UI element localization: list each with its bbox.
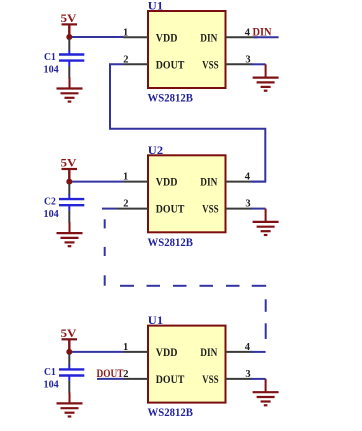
svg-text:DIN: DIN (200, 32, 218, 44)
svg-text:VSS: VSS (202, 59, 219, 71)
junction dot (5V/C1) (66, 34, 72, 40)
IC U2 WS2812B (middle) (148, 155, 226, 232)
svg-text:C2: C2 (44, 196, 56, 208)
ground (below C1) (57, 78, 83, 102)
svg-text:WS2812B: WS2812B (148, 407, 194, 419)
svg-text:DOUT: DOUT (156, 204, 185, 216)
svg-text:U1: U1 (148, 1, 164, 13)
wire U1 pin 3 to ground (251, 63, 266, 65)
svg-text:5V: 5V (61, 158, 78, 170)
pin 4 DIN (bottom) (226, 351, 253, 353)
junction dot (5V/C1 bottom) (66, 349, 72, 355)
dashed wire down to bottom DIN (right vertical) (265, 299, 267, 339)
svg-text:VDD: VDD (156, 32, 178, 44)
svg-text:VDD: VDD (156, 347, 178, 359)
svg-text:104: 104 (44, 64, 60, 76)
wire stub U2 pin 4 DIN (251, 181, 266, 183)
wire U1 pin 4 to DIN label (254, 36, 279, 38)
svg-text:4: 4 (245, 172, 251, 183)
pin 1 VDD (middle) (124, 181, 149, 183)
svg-text:WS2812B: WS2812B (148, 237, 194, 249)
dashed wire horizontal run (120, 285, 266, 287)
svg-text:2: 2 (123, 199, 128, 210)
svg-text:2: 2 (123, 54, 128, 65)
svg-text:WS2812B: WS2812B (148, 93, 194, 105)
svg-text:1: 1 (123, 342, 128, 353)
svg-text:C1: C1 (44, 366, 56, 378)
power port 5V (U1 section) (61, 13, 78, 37)
pin 2 DOUT (bottom) (124, 378, 148, 380)
wire 5V junction to U1 pin 1 (69, 36, 123, 38)
svg-text:DIN: DIN (200, 347, 218, 359)
wire bottom U1 pin 3 to ground (251, 378, 266, 380)
pin 2 DOUT (top) (124, 63, 149, 65)
svg-text:104: 104 (44, 208, 60, 220)
svg-text:2: 2 (123, 369, 128, 380)
capacitor C1 (top section) (59, 39, 84, 78)
pin 4 DIN (top) (226, 36, 258, 38)
ground (below C1 bottom) (57, 392, 83, 416)
ground (U2 VSS) (253, 209, 279, 235)
svg-text:DOUT: DOUT (97, 368, 124, 380)
ground (bottom U1 VSS) (253, 379, 279, 405)
pin 1 VDD (bottom) (124, 351, 149, 353)
wire stub DOUT label to pin 2 (97, 378, 124, 380)
pin 3 VSS (top) (226, 63, 253, 65)
svg-text:VSS: VSS (202, 204, 219, 216)
power port 5V (U2 section) (61, 158, 78, 182)
svg-text:4: 4 (245, 27, 251, 38)
svg-text:VSS: VSS (202, 374, 219, 386)
pin 3 VSS (bottom) (226, 378, 253, 380)
wire stub bottom U1 pin 4 DIN (251, 351, 266, 353)
svg-text:DIN: DIN (253, 26, 273, 38)
wire U2 pin 3 to ground (251, 208, 266, 210)
pin 1 VDD (top) (124, 36, 149, 38)
svg-text:U1: U1 (148, 315, 164, 327)
svg-text:5V: 5V (61, 328, 78, 340)
wire 5V junction to bottom U1 pin 1 (69, 351, 123, 353)
wire 5V junction to U2 pin 1 (69, 181, 123, 183)
wire stub U2 pin 2 DOUT (102, 208, 117, 210)
svg-text:104: 104 (44, 378, 60, 390)
svg-text:4: 4 (245, 342, 251, 353)
wire U1 DOUT to U2 DIN (110, 64, 265, 181)
svg-text:1: 1 (123, 27, 128, 38)
svg-text:VDD: VDD (156, 177, 178, 189)
pin 4 DIN (middle) (226, 181, 253, 183)
svg-text:3: 3 (245, 199, 250, 210)
IC U1 WS2812B (top) (148, 11, 226, 88)
IC U1 WS2812B (bottom) (148, 326, 226, 403)
ground (below C2) (57, 222, 83, 246)
capacitor C2 (middle section) (59, 184, 84, 223)
dashed wire U2 DOUT down (left vertical) (104, 219, 106, 285)
ground (U1 VSS) (253, 64, 279, 90)
capacitor C1 (bottom section) (59, 354, 84, 393)
power port 5V (bottom section) (61, 328, 78, 352)
pin 2 DOUT (middle) (117, 208, 148, 210)
svg-text:3: 3 (245, 54, 250, 65)
svg-text:C1: C1 (44, 51, 56, 63)
pin 3 VSS (middle) (226, 208, 253, 210)
svg-text:1: 1 (123, 172, 128, 183)
svg-text:3: 3 (245, 369, 250, 380)
svg-text:DIN: DIN (200, 177, 218, 189)
svg-text:5V: 5V (61, 13, 78, 25)
svg-text:U2: U2 (148, 145, 164, 157)
svg-text:DOUT: DOUT (156, 374, 185, 386)
junction dot (5V/C2) (66, 179, 72, 185)
svg-text:DOUT: DOUT (156, 59, 185, 71)
